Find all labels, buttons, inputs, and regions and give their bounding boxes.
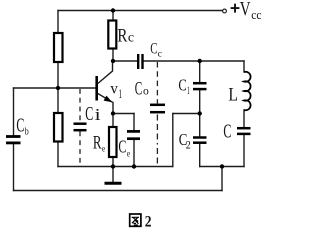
wire coil to C — [243, 110, 245, 127]
transistor V1 base bar — [95, 76, 98, 101]
wire C1 top lead — [199, 61, 201, 82]
svg-text:C: C — [118, 137, 126, 157]
label Ce — [118, 137, 130, 160]
svg-text:C: C — [85, 104, 93, 125]
ground bar — [105, 182, 122, 185]
node Ce bottom junction — [132, 164, 136, 168]
svg-text:2: 2 — [145, 213, 152, 230]
svg-text:e: e — [127, 149, 130, 159]
transistor V1 collector line — [98, 62, 113, 84]
svg-text:C: C — [150, 40, 157, 57]
node Re bottom junction — [111, 164, 115, 168]
capacitor C plates — [237, 128, 251, 134]
label Cb — [16, 116, 29, 138]
svg-text:v: v — [110, 81, 118, 98]
resistor (lower bias) — [54, 113, 63, 142]
label Re — [93, 134, 105, 155]
wire between bias resistors (base column) — [57, 62, 59, 113]
wire Cb to bottom rail — [13, 145, 15, 191]
svg-text:2: 2 — [186, 139, 191, 151]
wire collector node to Cc — [113, 60, 137, 62]
svg-text:cc: cc — [251, 8, 262, 22]
svg-text:b: b — [25, 125, 29, 137]
wire C bottom lead — [243, 136, 245, 167]
wire tank right corner to coil — [243, 61, 245, 72]
transistor V1 emitter line — [98, 94, 113, 103]
capacitor Co dashed leads — [156, 62, 158, 166]
svg-text:e: e — [102, 144, 105, 154]
wire C1 to C2 — [199, 91, 201, 137]
wire Rc top lead — [112, 11, 114, 21]
inductor L coil — [244, 72, 251, 111]
capacitor C1 plates — [193, 83, 207, 89]
wire emitter lead to Re — [112, 103, 114, 128]
node tank top junction — [198, 59, 202, 63]
capacitor C2 plates — [193, 138, 207, 143]
svg-text:R: R — [93, 134, 102, 154]
capacitor Cc plates — [138, 54, 142, 69]
svg-text:C: C — [135, 79, 143, 99]
label Rc — [117, 26, 134, 47]
terminal Vcc circle — [223, 9, 227, 13]
wire Cc to tank top — [144, 60, 245, 62]
svg-text:C: C — [16, 116, 24, 137]
label figure caption 图 (drawn glyph) — [130, 214, 141, 226]
wire Rc bottom lead to collector node — [112, 49, 114, 62]
wire Ce bottom lead — [133, 140, 135, 167]
svg-text:1: 1 — [187, 85, 190, 97]
wire base horizontal — [14, 87, 96, 89]
svg-text:o: o — [143, 83, 149, 97]
svg-text:C: C — [178, 76, 186, 95]
wire midpoint tap vertical — [172, 114, 174, 167]
wire Ce top lead — [133, 114, 135, 131]
label Cc — [150, 40, 162, 59]
label Ci — [85, 104, 101, 125]
label C2 — [179, 130, 191, 152]
capacitor Ce plates — [127, 131, 140, 138]
wire tank bottom to ground rail — [221, 167, 223, 191]
wire bottom rail — [14, 190, 223, 192]
capacitor Cb plates — [6, 137, 21, 143]
label v1 — [110, 81, 122, 101]
svg-text:1: 1 — [119, 86, 123, 101]
wire emitter node to Ce — [113, 113, 134, 115]
wire tank bottom — [200, 166, 244, 168]
node C1-C2 midpoint junction — [198, 111, 202, 115]
node Rc top rail junction — [111, 8, 115, 12]
node emitter junction — [111, 111, 115, 115]
wire midpoint tap horizontal — [173, 113, 200, 115]
svg-text:C: C — [223, 121, 231, 143]
wire lower bias resistor to emitter rail — [57, 142, 59, 167]
svg-text:c: c — [158, 49, 162, 59]
wire left bias column upper lead — [57, 11, 59, 34]
svg-text:R: R — [117, 26, 127, 47]
wire C2 bottom lead — [199, 145, 201, 167]
node collector junction — [111, 59, 115, 63]
svg-text:V: V — [240, 0, 251, 20]
wire ground stem — [112, 167, 114, 183]
resistor (upper bias) — [54, 33, 63, 62]
wire top supply rail — [58, 10, 222, 12]
label +Vcc — [231, 0, 262, 22]
wire emitter bottom rail — [58, 166, 173, 168]
wire Re bottom lead — [112, 157, 114, 167]
node tank bottom junction — [220, 164, 224, 168]
capacitor Co plates — [150, 105, 165, 112]
node base junction — [56, 86, 60, 90]
label C1 — [178, 76, 190, 97]
resistor Re — [109, 127, 117, 157]
svg-text:L: L — [228, 85, 238, 106]
label Co — [135, 79, 149, 99]
svg-text:c: c — [128, 30, 134, 45]
wire left column to Cb — [13, 88, 15, 135]
transistor V1 emitter arrow — [104, 96, 113, 103]
capacitor Ci plates — [74, 124, 87, 131]
capacitor Ci dashed leads — [79, 89, 81, 166]
svg-text:i: i — [95, 105, 101, 124]
resistor Rc — [108, 21, 116, 49]
